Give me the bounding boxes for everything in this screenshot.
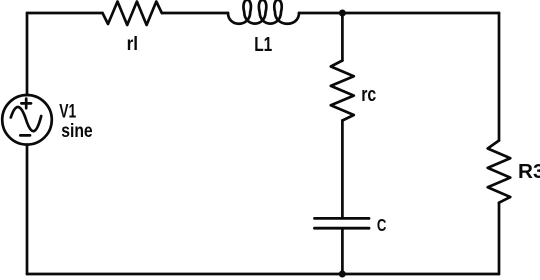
- svg-text:rl: rl: [127, 34, 139, 55]
- svg-text:rc: rc: [361, 84, 376, 106]
- node top junction dot: [339, 10, 346, 17]
- wire capacitor to bottom node: [341, 229, 344, 274]
- capacitor C bottom plate: [315, 227, 370, 230]
- wire right side upper: [498, 13, 501, 141]
- resistor rl: [103, 2, 162, 26]
- svg-text:sine: sine: [61, 121, 92, 142]
- wire left side lower: [26, 145, 29, 274]
- V1 plus sign: [21, 99, 31, 109]
- wire left side upper: [26, 13, 29, 95]
- resistor rc: [331, 61, 354, 121]
- svg-text:L1: L1: [254, 34, 272, 56]
- capacitor C top plate: [315, 217, 370, 220]
- V1 minus sign: [20, 134, 30, 137]
- wire bottom: [27, 273, 499, 276]
- wire from L1 to top node: [299, 12, 342, 15]
- wire top node to top-right corner: [342, 12, 499, 15]
- wire top-left horizontal: [27, 12, 103, 15]
- node bottom junction dot: [339, 271, 346, 278]
- wire between rl and L1: [162, 12, 228, 15]
- wire rc to capacitor: [341, 121, 344, 218]
- svg-text:C: C: [377, 215, 387, 235]
- svg-text:V1: V1: [59, 102, 76, 123]
- V1 sine wave: [11, 107, 41, 131]
- wire top node down to rc: [341, 13, 344, 61]
- svg-text:R3: R3: [518, 160, 540, 183]
- voltage source V1 circle: [2, 95, 52, 145]
- inductor L1: [228, 0, 299, 24]
- resistor R3: [488, 141, 511, 203]
- wire right side lower: [498, 203, 501, 274]
